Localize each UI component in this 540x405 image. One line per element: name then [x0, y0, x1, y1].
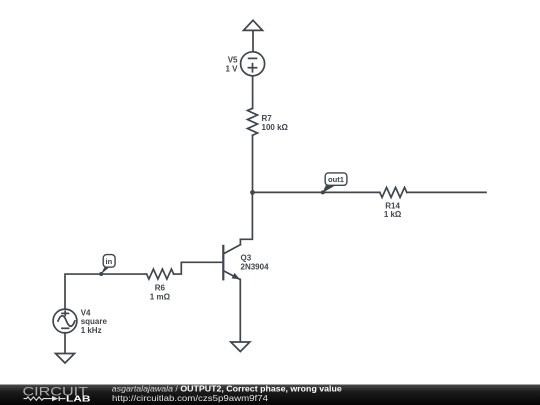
svg-text:R7: R7 — [262, 114, 273, 123]
resistor R14 — [380, 187, 407, 197]
svg-text:Q3: Q3 — [241, 254, 252, 263]
svg-text:1 mΩ: 1 mΩ — [150, 293, 171, 302]
wire emitter to ground — [239, 279, 241, 342]
label V4 square 1 kHz — [81, 309, 108, 335]
ground (at V4) — [56, 354, 75, 364]
wire V4 to ground — [64, 333, 66, 354]
wire R7 to node out1 — [252, 135, 254, 192]
footer bar — [0, 385, 540, 405]
svg-text:V5: V5 — [228, 55, 238, 64]
svg-text:out1: out1 — [328, 175, 345, 184]
svg-text:100 kΩ: 100 kΩ — [262, 123, 289, 132]
ground (at Q3 emitter) — [231, 342, 250, 352]
svg-text:asgartalajawala / OUTPUT2, Cor: asgartalajawala / OUTPUT2, Correct phase… — [112, 383, 342, 393]
resistor R7 — [248, 108, 258, 135]
voltage source V5 — [241, 52, 265, 76]
svg-text:in: in — [106, 257, 113, 266]
wire collector to node — [240, 192, 252, 239]
net flag in — [99, 255, 115, 276]
wire R14 to open end — [407, 191, 486, 193]
svg-text:1 V: 1 V — [225, 64, 238, 73]
ground (top, at V5 negative terminal) — [244, 20, 263, 52]
label Q3 2N3904 — [241, 254, 270, 272]
wire node to R14 — [253, 191, 380, 193]
wire node in to V4 — [65, 274, 101, 309]
voltage source V4 — [53, 309, 77, 333]
svg-text:1 kHz: 1 kHz — [81, 326, 102, 335]
svg-text:http://circuitlab.com/czs5p9aw: http://circuitlab.com/czs5p9awm9f74 — [112, 393, 268, 403]
svg-text:R6: R6 — [155, 284, 166, 293]
CircuitLab logo — [23, 384, 91, 403]
wire V5 to R7 — [252, 76, 254, 109]
svg-text:2N3904: 2N3904 — [241, 263, 270, 272]
junction node — [250, 190, 255, 195]
svg-text:square: square — [81, 317, 108, 326]
svg-text:LAB: LAB — [66, 395, 91, 404]
label R7 100 kΩ — [262, 114, 289, 132]
transistor Q3 — [223, 239, 240, 280]
label R14 1 kΩ — [384, 201, 402, 219]
svg-text:1 kΩ: 1 kΩ — [384, 210, 402, 219]
resistor R6 — [147, 269, 174, 279]
net flag out1 — [321, 173, 347, 195]
wire R6 to node in — [101, 273, 146, 275]
label R6 1 mΩ — [150, 284, 171, 302]
wire base to R6 — [174, 262, 224, 274]
svg-text:V4: V4 — [81, 309, 91, 318]
label V5 1 V — [225, 55, 238, 73]
